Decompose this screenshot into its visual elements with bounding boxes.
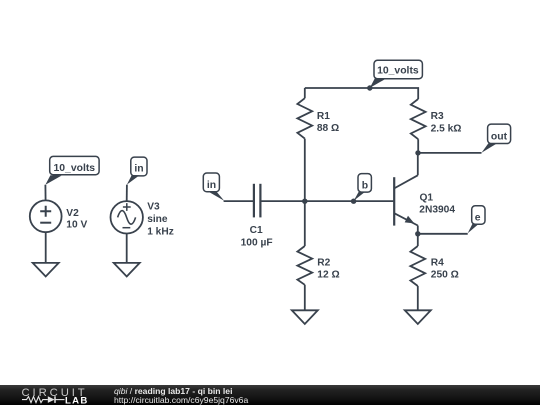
label R4 value [431, 257, 459, 280]
svg-text:in: in [207, 180, 216, 191]
svg-text:88 Ω: 88 Ω [317, 123, 339, 134]
node: junction dot at b flag [351, 199, 356, 204]
node: junction dot at R1/R2 tap [302, 199, 307, 204]
label Q1 value [419, 193, 455, 216]
net flag 10_volts on V2 [45, 156, 99, 184]
svg-text:2N3904: 2N3904 [419, 205, 455, 216]
capacitor C1 [254, 184, 261, 218]
ground R4 [405, 310, 431, 324]
net flag out [482, 124, 511, 153]
svg-text:e: e [475, 212, 481, 223]
svg-text:10_volts: 10_volts [377, 66, 419, 77]
wire V2 top [44, 185, 46, 201]
svg-text:R2: R2 [317, 257, 330, 268]
node: junction dot emitter [415, 231, 420, 236]
svg-text:V3: V3 [147, 202, 160, 213]
resistor R1 [297, 98, 312, 138]
wire R3 bottom to collector node [417, 139, 419, 153]
node: junction dot collector [415, 150, 420, 155]
wire emitter down [417, 226, 419, 247]
resistor R3 [411, 99, 426, 139]
net flag in (input of main circuit) [203, 173, 224, 201]
wire V3 bottom [126, 234, 128, 263]
label V2 value [66, 208, 87, 231]
svg-text:LAB: LAB [65, 395, 89, 405]
svg-text:C1: C1 [250, 225, 263, 236]
wire R1 top to top rail [304, 88, 306, 98]
svg-text:R1: R1 [317, 111, 330, 122]
svg-text:in: in [134, 163, 143, 174]
net flag b [354, 174, 372, 201]
svg-text:2.5 kΩ: 2.5 kΩ [431, 124, 462, 135]
svg-text:out: out [491, 131, 508, 142]
svg-text:b: b [362, 180, 368, 191]
label R2 value [317, 257, 339, 280]
top rail wire 10_volts [305, 88, 418, 99]
label R1 value [317, 111, 339, 134]
svg-text:10 V: 10 V [66, 220, 87, 231]
wire out [418, 152, 482, 154]
svg-text:1 kHz: 1 kHz [147, 227, 174, 238]
label V3 value [147, 202, 174, 238]
svg-text:sine: sine [147, 214, 168, 225]
voltage source V3 [111, 201, 143, 233]
svg-text:12 Ω: 12 Ω [317, 269, 339, 280]
svg-text:V2: V2 [66, 208, 79, 219]
svg-text:R3: R3 [431, 111, 444, 122]
wire V2 bottom [45, 232, 47, 263]
net flag e [468, 206, 485, 234]
CircuitLab logo [21, 385, 97, 405]
label R3 value [431, 111, 462, 135]
svg-text:Q1: Q1 [420, 193, 434, 204]
label C1 value [241, 225, 273, 249]
transistor Q1 [394, 175, 418, 225]
wire R1 bottom to tap [304, 139, 306, 246]
resistor R2 [297, 246, 312, 285]
ground V3 [114, 263, 140, 277]
svg-text:250 Ω: 250 Ω [431, 269, 459, 280]
node: junction dot on top rail [367, 85, 372, 90]
wire C1 to base [262, 200, 394, 202]
wire R4 bottom [417, 286, 419, 310]
wire emitter to e flag [418, 233, 468, 235]
ground R2 [292, 310, 318, 324]
wire in to C1 [224, 200, 253, 202]
svg-text:R4: R4 [431, 257, 444, 268]
svg-text:10_volts: 10_volts [54, 163, 96, 174]
wire collector to R3 node [417, 153, 419, 175]
net flag 10_volts on top rail [370, 60, 423, 88]
voltage source V2 [30, 200, 62, 232]
wire R2 bottom [304, 285, 306, 311]
footer bar [0, 385, 540, 405]
wire V3 top [126, 185, 128, 202]
net flag in on V3 [127, 157, 147, 185]
svg-text:100 µF: 100 µF [241, 237, 273, 248]
resistor R4 [410, 246, 425, 286]
ground V2 [33, 263, 59, 277]
